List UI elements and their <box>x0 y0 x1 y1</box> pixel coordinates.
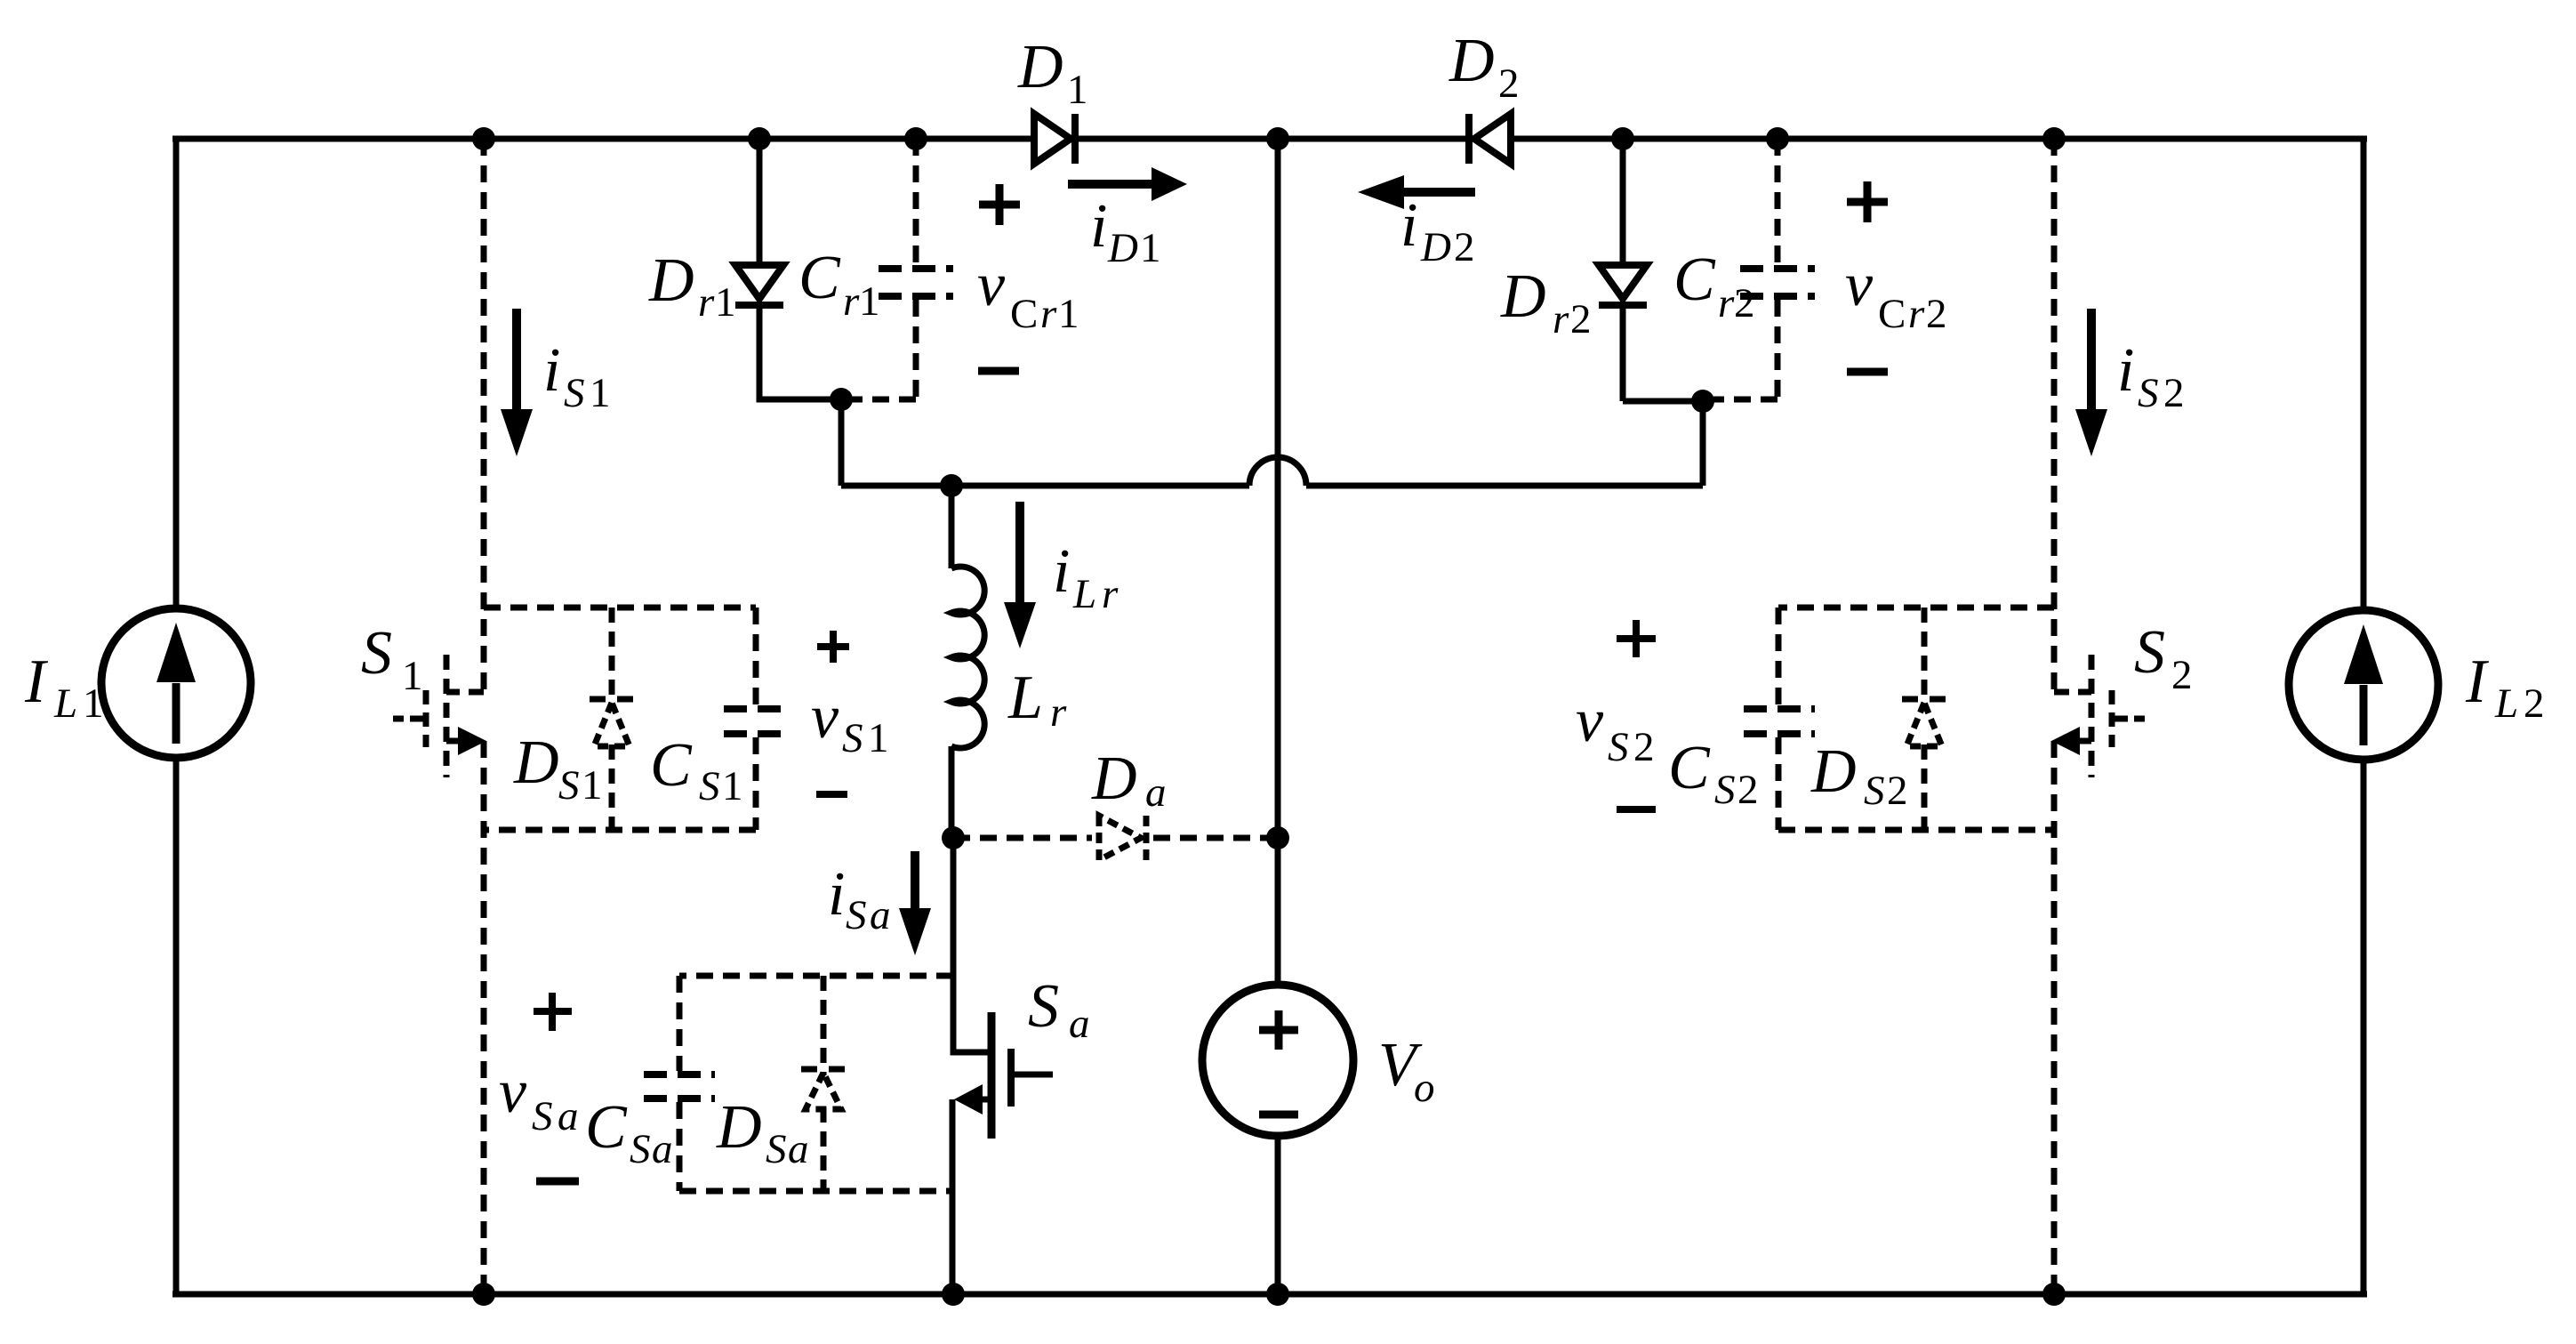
svg-text:S: S <box>1864 768 1885 814</box>
svg-text:2: 2 <box>1887 768 1908 814</box>
svg-text:r: r <box>1050 689 1067 736</box>
diode D1 <box>1034 114 1075 164</box>
svg-text:L: L <box>53 680 77 727</box>
diode D2 <box>1469 114 1511 164</box>
svg-text:a: a <box>1145 769 1167 816</box>
wire hop over center <box>1249 457 1306 486</box>
snubber box DS1 CS1 <box>484 608 756 830</box>
svg-text:i: i <box>543 336 560 405</box>
svg-text:D: D <box>1810 737 1857 806</box>
svg-text:v: v <box>499 1058 527 1126</box>
wire S2 dashed leg <box>2051 139 2058 1294</box>
svg-text:r: r <box>1718 280 1735 326</box>
node Lr top <box>940 474 963 497</box>
svg-text:D: D <box>1500 262 1546 331</box>
svg-text:I: I <box>2465 648 2490 716</box>
capacitor CS2 plates <box>1744 709 1815 734</box>
svg-text:2: 2 <box>1926 291 1947 337</box>
inductor Lr <box>951 567 984 748</box>
node bottom Sa <box>942 1283 965 1306</box>
svg-text:D: D <box>1420 224 1451 270</box>
transistor S2 dashed <box>2054 655 2145 777</box>
svg-text:1: 1 <box>715 279 736 326</box>
svg-text:v: v <box>1576 687 1604 755</box>
svg-text:2: 2 <box>1570 296 1592 342</box>
minus vCr1 <box>978 367 1019 375</box>
svg-text:D: D <box>1107 225 1138 271</box>
svg-text:S: S <box>2134 618 2165 687</box>
plus vSa <box>534 993 572 1031</box>
arrow iS2 <box>2087 309 2096 411</box>
svg-text:S: S <box>361 619 392 688</box>
svg-text:2: 2 <box>1454 224 1475 270</box>
svg-text:S: S <box>766 1126 787 1172</box>
svg-text:2: 2 <box>2171 652 2193 698</box>
wire right vertical <box>2361 139 2367 1294</box>
arrow iD1 <box>1068 180 1153 189</box>
svg-text:1: 1 <box>722 763 743 809</box>
wire resonant link right <box>1306 401 1703 486</box>
svg-text:i: i <box>2117 336 2134 405</box>
wire Dr1 branch <box>759 139 841 486</box>
plus vS2 <box>1617 620 1656 657</box>
capacitor Cr1 plates <box>879 269 953 296</box>
diode DS1 dashed <box>590 608 634 830</box>
svg-text:D: D <box>1091 744 1137 813</box>
svg-text:r: r <box>698 279 715 326</box>
svg-text:1: 1 <box>582 762 603 809</box>
transistor Sa <box>952 838 1053 1294</box>
arrow iS1 <box>512 309 521 411</box>
svg-text:S: S <box>699 763 720 809</box>
svg-text:i: i <box>1400 191 1417 260</box>
arrow iSa <box>911 851 919 911</box>
svg-text:C: C <box>585 1093 628 1162</box>
svg-text:1: 1 <box>868 715 889 761</box>
snubber box CSa DSa <box>679 976 953 1191</box>
svg-text:D: D <box>648 246 694 315</box>
svg-text:v: v <box>811 683 839 752</box>
svg-text:2: 2 <box>1734 280 1755 326</box>
svg-text:S: S <box>532 1093 553 1139</box>
svg-text:C: C <box>798 244 841 312</box>
svg-text:S: S <box>630 1126 651 1172</box>
capacitor CS1 plates <box>724 709 788 734</box>
svg-text:S: S <box>1028 972 1059 1041</box>
node top Dr1 <box>748 127 771 150</box>
svg-text:1: 1 <box>83 680 104 727</box>
node top S2 <box>2042 127 2066 150</box>
svg-text:S: S <box>564 370 585 416</box>
svg-text:2: 2 <box>2524 680 2545 727</box>
minus vSa <box>536 1178 579 1186</box>
node Da right <box>1266 826 1289 849</box>
wire S1 dashed leg <box>481 139 487 1294</box>
svg-text:a: a <box>870 892 891 938</box>
svg-text:S: S <box>1714 767 1736 813</box>
node Dr1 bottom <box>830 388 853 411</box>
node top center <box>1266 127 1289 150</box>
svg-text:D: D <box>1448 27 1495 95</box>
svg-text:L: L <box>1007 664 1043 732</box>
wire Lr bottom lead <box>949 746 955 838</box>
svg-text:i: i <box>1090 192 1107 261</box>
arrow iLr <box>1015 502 1024 604</box>
svg-text:D: D <box>716 1093 762 1162</box>
plus vCr1 <box>979 184 1020 225</box>
diode Dr1 <box>735 265 783 305</box>
svg-text:a: a <box>788 1126 809 1172</box>
transistor S1 dashed <box>393 655 484 777</box>
svg-text:v: v <box>1845 251 1874 319</box>
minus vCr2 <box>1847 368 1888 376</box>
wire bottom rail <box>173 1292 2367 1298</box>
svg-text:S: S <box>1608 724 1629 770</box>
svg-text:1: 1 <box>590 370 611 416</box>
svg-text:L: L <box>1072 571 1096 617</box>
current source IL1 <box>101 608 251 758</box>
wire resonant link left <box>841 483 1249 489</box>
svg-text:2: 2 <box>1737 767 1759 813</box>
diode DSa dashed <box>801 976 846 1191</box>
node top Cr1 <box>904 127 927 150</box>
node bottom S2 <box>2042 1283 2066 1306</box>
plus vS1 <box>817 631 849 663</box>
wire Da dashed branch <box>953 835 1278 841</box>
svg-text:r: r <box>1908 291 1925 337</box>
svg-text:I: I <box>24 648 49 716</box>
svg-text:1: 1 <box>1058 291 1079 337</box>
capacitor CSa plates <box>644 1074 715 1099</box>
wire Dr2 branch <box>1620 139 1626 401</box>
svg-text:r: r <box>1102 571 1119 617</box>
snubber box CS2 DS2 <box>1778 608 2054 830</box>
source Vo <box>1202 985 1353 1136</box>
arrow iD2 <box>1402 188 1475 197</box>
svg-text:C: C <box>1010 291 1038 337</box>
svg-text:1: 1 <box>402 653 423 699</box>
capacitor Cr2 <box>1703 139 1778 399</box>
wire top rail <box>173 136 2367 142</box>
svg-text:r: r <box>1553 296 1569 342</box>
node bottom Vo <box>1266 1283 1289 1306</box>
svg-text:S: S <box>2138 370 2159 416</box>
svg-text:2: 2 <box>2163 370 2185 416</box>
diode Dr2 <box>1599 265 1647 305</box>
wire center vertical Vo branch <box>1275 139 1281 1294</box>
node top S1 <box>472 127 495 150</box>
svg-text:S: S <box>842 715 863 761</box>
svg-text:2: 2 <box>1498 60 1520 107</box>
svg-text:a: a <box>1069 1001 1090 1047</box>
node top Dr2 <box>1611 127 1634 150</box>
diode DS2 dashed <box>1902 608 1946 830</box>
svg-text:i: i <box>1053 537 1070 606</box>
minus vS1 <box>816 791 847 798</box>
svg-text:a: a <box>652 1126 673 1172</box>
svg-text:L: L <box>2494 680 2518 727</box>
svg-text:a: a <box>558 1093 579 1139</box>
svg-text:C: C <box>1668 734 1711 802</box>
svg-text:1: 1 <box>1140 225 1161 271</box>
svg-text:D: D <box>1017 33 1063 101</box>
node bottom S1 <box>472 1283 495 1306</box>
capacitor Cr1 <box>841 139 916 399</box>
wire left vertical <box>173 139 180 1294</box>
current source IL2 <box>2289 610 2438 760</box>
svg-text:C: C <box>1673 245 1716 314</box>
svg-text:S: S <box>846 892 867 938</box>
plus vCr2 <box>1847 181 1888 222</box>
svg-text:i: i <box>828 860 845 929</box>
node top Cr2 <box>1766 127 1789 150</box>
svg-text:C: C <box>650 731 693 800</box>
diode Da dashed <box>1099 816 1146 860</box>
node Lr bottom <box>942 826 965 849</box>
node Dr2 bottom <box>1691 390 1714 413</box>
minus vS2 <box>1617 806 1656 813</box>
svg-text:r: r <box>1040 291 1057 337</box>
svg-text:o: o <box>1414 1065 1435 1111</box>
wire Lr top lead <box>949 486 955 568</box>
svg-text:2: 2 <box>1633 724 1655 770</box>
svg-text:r: r <box>843 278 860 325</box>
svg-text:v: v <box>977 251 1006 319</box>
svg-text:D: D <box>513 728 559 797</box>
svg-text:S: S <box>558 762 580 809</box>
svg-text:C: C <box>1878 291 1906 337</box>
capacitor Cr2 plates <box>1740 269 1815 296</box>
svg-text:1: 1 <box>1067 67 1088 113</box>
svg-text:1: 1 <box>859 278 880 325</box>
